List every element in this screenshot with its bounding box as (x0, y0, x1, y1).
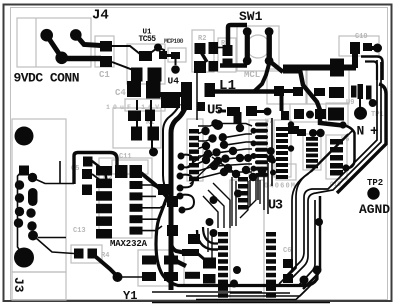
svg-text:C11: C11 (119, 153, 132, 161)
svg-text:J4: J4 (92, 8, 109, 24)
svg-text:J3: J3 (11, 277, 26, 293)
svg-text:MCP100: MCP100 (164, 38, 184, 45)
svg-text:Y1: Y1 (123, 289, 137, 303)
svg-text:C19: C19 (355, 33, 368, 41)
svg-text:TC55: TC55 (139, 35, 157, 44)
svg-text:R4: R4 (101, 252, 109, 260)
svg-text:C4: C4 (115, 88, 126, 98)
svg-text:C13: C13 (73, 227, 86, 235)
svg-text:C6: C6 (283, 247, 291, 255)
svg-text:U3: U3 (268, 199, 283, 214)
svg-text:TP2: TP2 (367, 178, 383, 188)
svg-text:N: N (357, 124, 365, 139)
svg-text:U4: U4 (168, 76, 180, 87)
svg-text:R2: R2 (198, 35, 206, 43)
svg-text:9VDC CONN: 9VDC CONN (14, 71, 80, 86)
svg-text:C1: C1 (99, 70, 110, 80)
svg-text:SW1: SW1 (239, 9, 263, 24)
svg-text:MCL: MCL (244, 70, 260, 80)
svg-text:U9: U9 (346, 99, 354, 107)
svg-text:MAX232A: MAX232A (110, 239, 148, 249)
svg-text:AGND: AGND (359, 202, 390, 217)
